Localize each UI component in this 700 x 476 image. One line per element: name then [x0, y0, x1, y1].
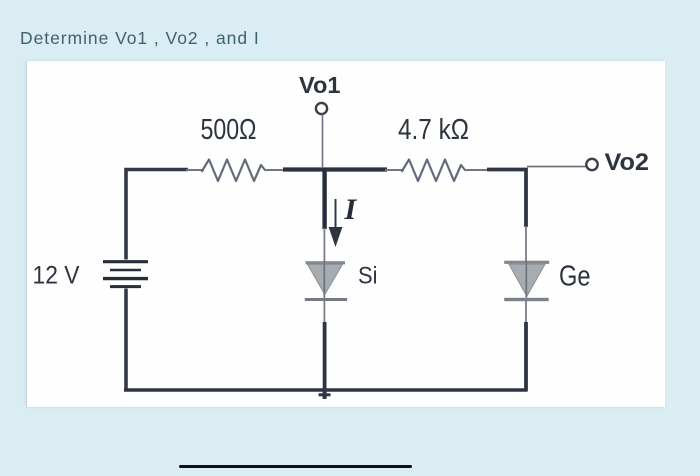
resistor R1 500 ohm zigzag — [202, 160, 265, 182]
wire: lead through Si diode — [323, 261, 325, 298]
wire: left branch lower segment — [124, 289, 128, 392]
wire: lead through Ge diode — [525, 261, 527, 298]
current arrow I — [329, 199, 343, 247]
node Vo1 terminal circle — [316, 103, 327, 114]
diode D1 Si triangle — [308, 264, 343, 294]
wire: Vo1 stub down to top rail — [322, 115, 324, 169]
diode D2 Ge cathode bar — [504, 298, 549, 301]
wire: top rail right thick segment with corner down — [487, 170, 526, 228]
wire: right branch thin to diode — [525, 226, 527, 262]
battery V1 short plate 2 — [110, 269, 141, 271]
title text — [20, 28, 260, 49]
home indicator bar — [179, 465, 412, 468]
svg-text:I: I — [344, 193, 358, 226]
junction tick below bottom rail — [319, 390, 331, 399]
wire: middle branch thick lower — [323, 322, 327, 391]
svg-text:Ge: Ge — [559, 261, 591, 293]
svg-text:12 V: 12 V — [33, 262, 80, 290]
wire: Vo2 stub — [527, 166, 586, 168]
battery V1 12V long plate top — [103, 260, 148, 263]
diode D2 Ge anode bar — [504, 261, 549, 264]
svg-text:4.7 kΩ: 4.7 kΩ — [398, 114, 469, 146]
wire: 4.7k left lead — [385, 169, 404, 171]
wire: right branch thin below diode — [525, 301, 527, 324]
wire: 500 ohm left lead — [186, 169, 204, 171]
diode D2 Ge triangle — [509, 264, 545, 296]
battery V1 long plate 3 — [103, 277, 148, 280]
svg-text:Vo2: Vo2 — [605, 149, 650, 176]
node Vo2 terminal circle — [586, 159, 597, 170]
diode D1 Si cathode bar — [305, 298, 347, 301]
white card — [27, 61, 665, 407]
wire: 500 ohm right lead — [264, 169, 285, 171]
wire: middle branch thick upper — [322, 168, 326, 229]
svg-text:Vo1: Vo1 — [299, 72, 341, 98]
wire: right branch thick lower — [524, 322, 528, 391]
wire: bottom rail — [124, 388, 528, 392]
wire: 4.7k right lead — [464, 169, 489, 171]
battery V1 short plate bottom — [110, 285, 141, 288]
svg-text:500Ω: 500Ω — [201, 114, 257, 146]
wire: middle branch thin below diode — [323, 301, 325, 324]
resistor R2 4.7 kohm zigzag — [402, 160, 465, 182]
diode D1 Si anode bar — [306, 261, 346, 264]
wire: top rail left thick segment — [126, 170, 188, 260]
svg-text:Si: Si — [358, 263, 378, 290]
wire: top rail middle thick segment — [283, 167, 387, 171]
wire: middle branch thin to diode — [323, 228, 325, 262]
